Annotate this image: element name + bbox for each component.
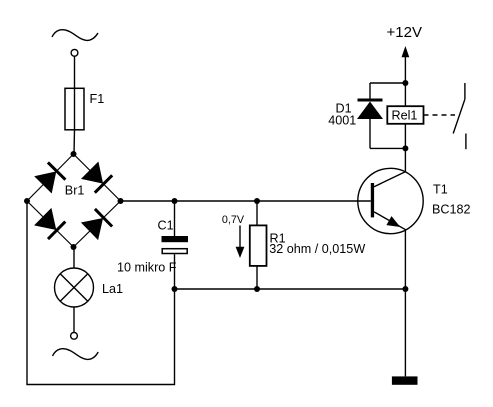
node bridge left: [24, 198, 30, 204]
Br1 diode bottom-right: [81, 218, 103, 240]
wire R1 bottom branch: [256, 266, 258, 289]
ground: [392, 376, 418, 384]
transistor T1: [358, 168, 423, 233]
wire supply line: [404, 56, 406, 83]
wire collector up: [404, 148, 406, 171]
wire emitter down: [404, 230, 406, 377]
fuse F1: [65, 88, 84, 130]
svg-text:Rel1: Rel1: [392, 109, 418, 123]
relay contact lower terminal: [465, 134, 467, 150]
Br1 diode top-right: [81, 162, 103, 184]
wire left loop: bridge left node down, along bottom, up to bottom rail: [27, 201, 175, 385]
wire terminal to fuse: [74, 56, 76, 88]
svg-text:4001: 4001: [328, 114, 356, 128]
AC squiggle bottom: [53, 349, 99, 360]
diode D1: [357, 100, 383, 119]
node R1 top: [254, 198, 260, 204]
AC terminal top: [71, 49, 78, 56]
wire bridge bottom to lamp: [73, 247, 75, 268]
node collector top junction: [402, 145, 408, 151]
wire relay bottom to junction: [404, 124, 406, 149]
node C1 top: [172, 198, 178, 204]
capacitor C1: [162, 236, 189, 254]
wire bottom rail: [175, 288, 406, 290]
bridge arm bottom-right: [74, 201, 121, 247]
wire lamp to terminal: [73, 307, 75, 332]
svg-text:T1: T1: [433, 183, 448, 197]
relay contact blade: [453, 99, 465, 133]
wire supply junction to relay top: [404, 83, 406, 106]
wire fuse to bridge top: [73, 130, 76, 154]
dashed link relay to contact: [424, 114, 456, 116]
svg-text:0,7V: 0,7V: [222, 214, 245, 226]
Br1 diode left-top: [34, 171, 56, 193]
svg-text:F1: F1: [90, 92, 105, 106]
wire C1 top branch: [174, 201, 176, 236]
resistor R1: [250, 225, 267, 266]
relay contact upper terminal: [464, 83, 466, 99]
bridge arm left-top: [27, 154, 74, 201]
wire D1 top branch: [369, 83, 371, 100]
AC squiggle top: [52, 30, 98, 41]
node R1 bottom: [254, 286, 260, 292]
svg-text:BC182: BC182: [432, 203, 471, 217]
lamp La1: [55, 268, 94, 307]
svg-text:10 mikro F: 10 mikro F: [117, 261, 177, 275]
node bridge top: [71, 151, 77, 157]
Br1 diode left-bottom: [34, 208, 56, 230]
supply arrow +12V: [402, 46, 410, 57]
wire D1 bottom branch: [369, 119, 371, 148]
wire top rail: bridge right node to transistor base: [121, 200, 371, 202]
bridge arm left-bottom: [27, 201, 74, 247]
svg-text:+12V: +12V: [387, 24, 422, 41]
voltage arrow 0,7V: [236, 226, 245, 259]
svg-text:La1: La1: [102, 282, 123, 296]
bridge arm top-right: [74, 154, 121, 201]
wire R1 top branch: [256, 201, 258, 225]
node C1 bottom: [172, 286, 178, 292]
node emitter rail: [402, 286, 408, 292]
node supply junction: [402, 80, 408, 86]
bridge rectifier Br1: [27, 154, 121, 247]
svg-text:32 ohm / 0,015W: 32 ohm / 0,015W: [269, 242, 365, 256]
node bridge bottom: [71, 244, 77, 250]
svg-text:Br1: Br1: [65, 184, 85, 198]
AC terminal bottom: [71, 332, 78, 339]
wire supply junction to D1 top: [370, 82, 405, 84]
svg-text:C1: C1: [158, 219, 174, 233]
wire D1 bottom to junction: [370, 147, 405, 149]
wire C1 bottom branch: [174, 254, 176, 289]
relay coil Rel1: [387, 106, 423, 124]
node bridge right: [118, 198, 124, 204]
